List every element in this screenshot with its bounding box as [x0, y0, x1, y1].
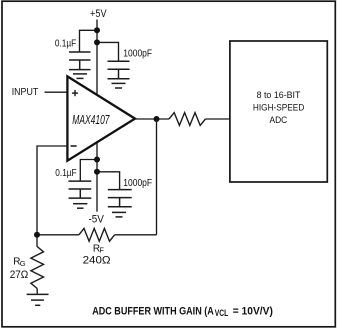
- wire to C4: [97, 172, 120, 190]
- ground below C4: [108, 207, 132, 217]
- resistor RF: [79, 228, 115, 241]
- junction dot output: [154, 116, 160, 122]
- svg-text:+5V: +5V: [90, 8, 107, 20]
- wire RG to ground: [36, 289, 38, 295]
- svg-text:VCL: VCL: [215, 308, 229, 318]
- svg-text:0.1µF: 0.1µF: [55, 168, 76, 179]
- resistor RG: [31, 247, 44, 289]
- capacitor C2 plates: [108, 61, 130, 78]
- svg-text:8 to 16-BIT: 8 to 16-BIT: [257, 90, 301, 101]
- junction dot feedback: [34, 232, 40, 238]
- ground below C3: [69, 198, 92, 208]
- wire to C1: [80, 30, 98, 52]
- op-amp U1 plus input marker: [72, 90, 78, 96]
- wire inverting input: [37, 146, 67, 247]
- resistor series (unlabeled): [169, 113, 205, 126]
- svg-text:27Ω: 27Ω: [10, 269, 29, 281]
- svg-text:INPUT: INPUT: [12, 87, 39, 98]
- svg-text:ADC BUFFER WITH GAIN (A: ADC BUFFER WITH GAIN (A: [92, 305, 214, 317]
- junction dot +5V upper: [94, 27, 100, 33]
- capacitor C3 plates: [69, 181, 92, 198]
- svg-text:240Ω: 240Ω: [83, 255, 111, 267]
- wire feedback bottom left: [37, 234, 79, 236]
- op-amp U1 MAX4107: [67, 76, 135, 160]
- svg-text:ADC: ADC: [270, 115, 288, 126]
- wire to ADC: [205, 118, 230, 120]
- op-amp U1 minus input marker: [71, 145, 77, 147]
- wire feedback vertical: [156, 119, 158, 235]
- wire feedback bottom right: [115, 234, 157, 236]
- svg-text:-5V: -5V: [89, 214, 105, 226]
- wire output: [135, 118, 169, 120]
- svg-text:F: F: [99, 246, 104, 255]
- svg-text:= 10V/V): = 10V/V): [233, 305, 274, 317]
- svg-text:MAX4107: MAX4107: [72, 113, 110, 127]
- wire -5V vertical supply: [96, 143, 98, 212]
- ADC box: [230, 41, 327, 182]
- wire input: [45, 91, 68, 93]
- junction dot -5V lower: [94, 169, 100, 175]
- junction dot +5V lower: [94, 39, 100, 45]
- svg-text:1000pF: 1000pF: [123, 48, 152, 59]
- capacitor C1 plates: [69, 52, 91, 70]
- capacitor C4 plates: [108, 190, 132, 207]
- ground below RG: [27, 294, 49, 305]
- svg-text:1000pF: 1000pF: [123, 178, 152, 189]
- junction dot -5V upper: [94, 157, 100, 163]
- ground below C1: [69, 70, 91, 79]
- wire to C3: [80, 160, 97, 182]
- ground below C2: [108, 79, 130, 88]
- svg-text:0.1µF: 0.1µF: [55, 38, 76, 49]
- wire to C2: [97, 42, 119, 61]
- svg-text:G: G: [20, 259, 26, 268]
- svg-text:HIGH-SPEED: HIGH-SPEED: [253, 103, 304, 114]
- wire +5V vertical supply: [96, 20, 98, 96]
